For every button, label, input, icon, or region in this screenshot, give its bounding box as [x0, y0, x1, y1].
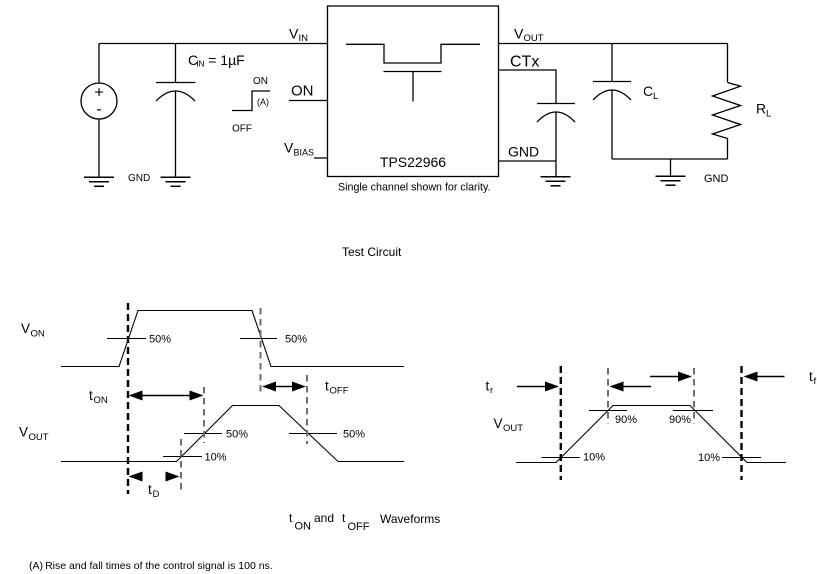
svg-text:D: D: [153, 489, 160, 500]
svg-text:C: C: [643, 83, 653, 99]
svg-text:ON: ON: [94, 395, 108, 406]
svg-text:50%: 50%: [343, 429, 365, 441]
svg-text:Test Circuit: Test Circuit: [342, 245, 402, 259]
svg-text:t: t: [325, 379, 329, 394]
svg-text:t: t: [486, 379, 490, 394]
svg-text:L: L: [766, 109, 771, 120]
svg-text:-: -: [96, 101, 101, 118]
svg-text:50%: 50%: [285, 334, 307, 346]
svg-text:=: =: [208, 52, 216, 68]
svg-text:R: R: [756, 101, 766, 117]
svg-text:r: r: [490, 385, 493, 396]
svg-text:BIAS: BIAS: [294, 148, 315, 158]
svg-text:10%: 10%: [205, 452, 227, 464]
svg-text:GND: GND: [704, 173, 729, 185]
svg-text:t: t: [148, 482, 152, 497]
svg-text:90%: 90%: [669, 414, 691, 426]
svg-text:IN: IN: [196, 59, 204, 69]
svg-text:OFF: OFF: [348, 521, 370, 533]
svg-text:50%: 50%: [226, 429, 248, 441]
svg-text:and: and: [314, 511, 334, 525]
svg-text:f: f: [814, 376, 817, 387]
svg-text:t: t: [809, 369, 813, 384]
svg-text:V: V: [494, 416, 503, 431]
svg-text:GND: GND: [508, 144, 539, 160]
svg-text:10%: 10%: [698, 452, 720, 464]
svg-text:10%: 10%: [583, 452, 605, 464]
svg-text:ON: ON: [253, 76, 268, 87]
svg-text:IN: IN: [299, 33, 309, 44]
svg-text:L: L: [653, 91, 658, 102]
svg-text:ON: ON: [31, 329, 45, 340]
svg-text:Waveforms: Waveforms: [380, 512, 440, 526]
svg-text:Single channel shown for clari: Single channel shown for clarity.: [338, 182, 490, 194]
svg-text:TPS22966: TPS22966: [380, 154, 446, 170]
svg-text:ON: ON: [295, 521, 312, 533]
svg-text:1µF: 1µF: [220, 52, 244, 68]
svg-text:OFF: OFF: [232, 124, 252, 135]
svg-text:V: V: [514, 26, 524, 42]
svg-text:t: t: [89, 388, 93, 403]
svg-text:CTx: CTx: [510, 54, 539, 71]
svg-text:OUT: OUT: [503, 423, 523, 434]
svg-text:90%: 90%: [615, 414, 637, 426]
svg-text:+: +: [94, 85, 103, 102]
svg-text:(A) Rise and fall times of the: (A) Rise and fall times of the control s…: [29, 560, 273, 572]
svg-text:V: V: [19, 425, 28, 440]
svg-text:50%: 50%: [149, 334, 171, 346]
svg-text:(A): (A): [257, 97, 269, 107]
svg-text:V: V: [284, 140, 294, 156]
svg-text:OUT: OUT: [29, 432, 49, 443]
svg-text:V: V: [289, 26, 299, 42]
svg-text:OUT: OUT: [524, 33, 544, 44]
svg-text:GND: GND: [128, 173, 150, 184]
svg-text:OFF: OFF: [330, 386, 349, 397]
svg-text:ON: ON: [291, 83, 314, 100]
svg-text:V: V: [21, 321, 30, 336]
